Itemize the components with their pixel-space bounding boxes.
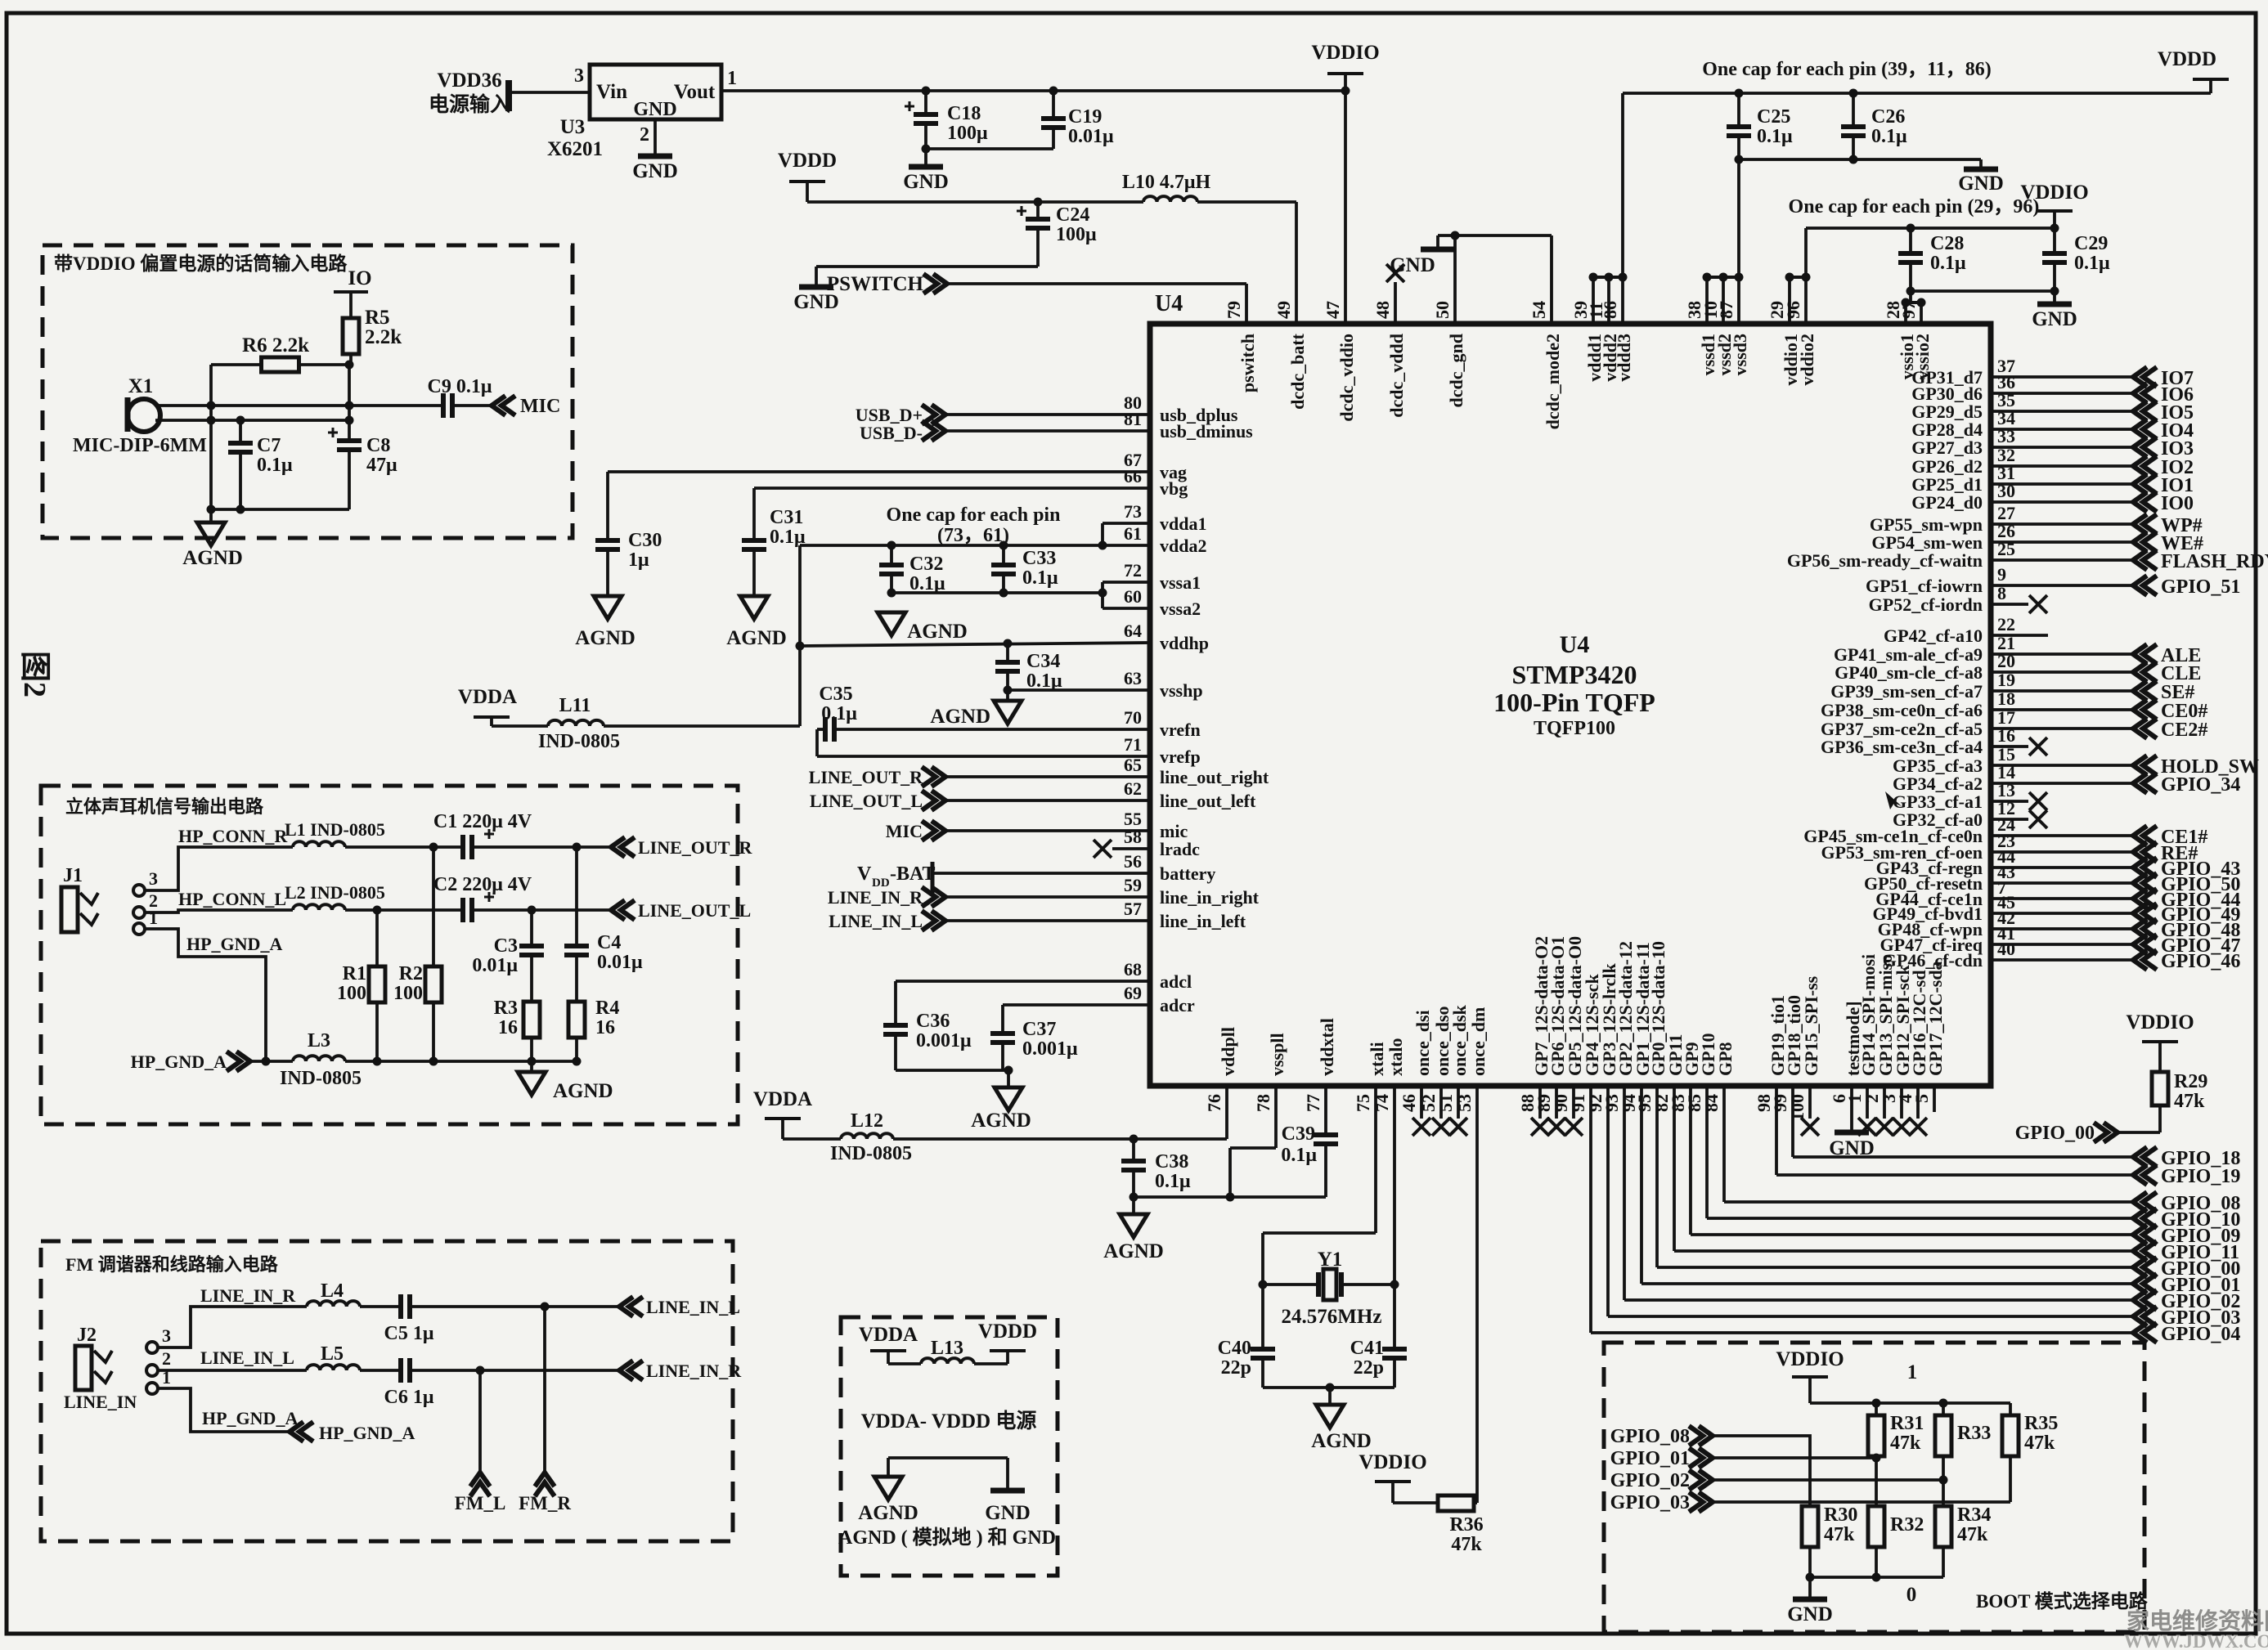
svg-text:VDDD: VDDD: [2158, 48, 2216, 70]
svg-text:GP38_sm-ce0n_cf-a6: GP38_sm-ce0n_cf-a6: [1821, 700, 1983, 720]
svg-text:HP_CONN_R: HP_CONN_R: [178, 826, 288, 846]
svg-text:BOOT 模式选择电路: BOOT 模式选择电路: [1976, 1590, 2149, 1612]
svg-text:vbg: vbg: [1160, 478, 1188, 499]
svg-text:GPIO_01: GPIO_01: [1610, 1448, 1690, 1469]
svg-text:GND: GND: [1390, 254, 1435, 276]
svg-text:R1: R1: [343, 963, 366, 984]
svg-text:C19: C19: [1068, 106, 1102, 128]
capacitor C36 0.001u: [883, 1023, 908, 1028]
svg-text:VDDIO: VDDIO: [2020, 182, 2088, 204]
svg-text:87: 87: [1716, 301, 1736, 319]
svg-text:0.001μ: 0.001μ: [1022, 1038, 1078, 1060]
junction at C24: [1034, 198, 1043, 207]
capacitor C30 1u: [595, 538, 620, 543]
svg-text:dcdc_gnd: dcdc_gnd: [1446, 334, 1466, 407]
svg-text:C36: C36: [916, 1011, 950, 1032]
wire VDDA to L12 to pin 76: [783, 1137, 841, 1141]
svg-text:once_dm: once_dm: [1468, 1007, 1489, 1076]
capacitor C19 0.01u: [1052, 91, 1055, 119]
svg-text:dcdc_batt: dcdc_batt: [1287, 333, 1308, 410]
ground GND in boot box: [1808, 1577, 1812, 1598]
svg-text:AGND: AGND: [858, 1502, 918, 1524]
svg-text:100: 100: [1787, 1094, 1808, 1121]
svg-text:AGND: AGND: [907, 621, 968, 643]
svg-text:VDDA: VDDA: [753, 1088, 812, 1110]
capacitor C5 1u series: [398, 1294, 403, 1319]
svg-text:62: 62: [1124, 778, 1142, 799]
svg-text:PSWITCH: PSWITCH: [827, 273, 924, 295]
svg-text:84: 84: [1701, 1094, 1722, 1112]
ground GND below U3: [638, 154, 672, 159]
J1 contact circles 3 2 1: [133, 885, 145, 896]
svg-text:100: 100: [337, 983, 366, 1004]
svg-text:GPIO_04: GPIO_04: [2161, 1324, 2240, 1345]
svg-text:U4: U4: [1560, 631, 1590, 658]
capacitor C25 0.1u: [1737, 93, 1740, 127]
svg-text:C7: C7: [257, 435, 281, 456]
svg-text:R32: R32: [1890, 1514, 1924, 1536]
wire L12 to pin 76 riser: [893, 1137, 1227, 1141]
microphone X1 MIC-DIP-6MM: [128, 399, 160, 432]
no-connect X on pin 48: [1386, 264, 1404, 282]
svg-text:GND: GND: [2032, 308, 2077, 330]
svg-text:VDDD: VDDD: [778, 150, 837, 172]
svg-text:LINE_OUT_L: LINE_OUT_L: [638, 900, 751, 921]
wire cap bottoms to GND rail: [1739, 158, 1981, 161]
svg-text:R2: R2: [399, 963, 423, 984]
svg-text:AGND ( 模拟地 ) 和 GND: AGND ( 模拟地 ) 和 GND: [838, 1527, 1056, 1549]
dashed box VDDA-VDDD power: [841, 1317, 1058, 1576]
svg-text:GND: GND: [1787, 1603, 1833, 1625]
inductor L5: [307, 1365, 360, 1370]
svg-text:adcr: adcr: [1160, 995, 1195, 1016]
svg-text:LINE_IN: LINE_IN: [64, 1392, 137, 1412]
net GPIO_10 wire from chip pin: [1705, 1088, 1709, 1218]
wire mic node down to bus: [209, 406, 213, 420]
svg-text:One cap for each pin: One cap for each pin: [887, 504, 1061, 526]
svg-text:100-Pin TQFP: 100-Pin TQFP: [1493, 688, 1655, 717]
svg-text:R36: R36: [1449, 1514, 1483, 1536]
svg-text:GPIO_19: GPIO_19: [2161, 1166, 2240, 1187]
svg-text:C39: C39: [1282, 1123, 1315, 1145]
resistor R36 47k: [1438, 1495, 1474, 1511]
svg-text:0.01μ: 0.01μ: [597, 952, 643, 973]
net GPIO_01 wire from chip pin: [1640, 1088, 1643, 1284]
net FLASH_RDY wire pin 25: [1991, 558, 2131, 562]
svg-text:GP56_sm-ready_cf-waitn: GP56_sm-ready_cf-waitn: [1787, 550, 1983, 571]
wire vddio rail boot box: [1810, 1401, 2010, 1405]
resistor R1 100: [375, 910, 379, 966]
svg-text:vddhp: vddhp: [1160, 633, 1209, 653]
wire vssd group up to gnd rail: [1737, 159, 1740, 277]
wire vddd1-3 pin group bar: [1593, 276, 1623, 279]
svg-text:C40: C40: [1218, 1338, 1251, 1359]
analog ground AGND on bus: [530, 1061, 533, 1072]
wire vssa rail pin 72 jog: [1103, 581, 1150, 584]
svg-text:C31: C31: [770, 507, 803, 528]
wire vbg pin 66 to C31: [754, 486, 1150, 490]
svg-text:47k: 47k: [1451, 1534, 1482, 1555]
wire adcr pin 69 to C37: [1003, 1003, 1150, 1007]
resistor R29 47k: [2152, 1072, 2168, 1105]
resistor R35 47k: [2009, 1403, 2012, 1415]
no-connect X pin 12: [1991, 818, 2028, 821]
svg-text:AGND: AGND: [182, 547, 243, 569]
wire vdda rail down to VDDA/L11: [798, 545, 802, 726]
svg-text:vddio2: vddio2: [1797, 334, 1817, 386]
capacitor C31 0.1u: [742, 538, 766, 543]
wire L10 to pin 49: [1197, 200, 1296, 204]
net LINE_OUT_R chevron right side: [621, 837, 635, 857]
svg-text:Y1: Y1: [1318, 1249, 1343, 1271]
wire vdda rail pin 61: [800, 544, 1150, 547]
wire L2 to C2: [345, 908, 463, 912]
svg-text:R6 2.2k: R6 2.2k: [242, 334, 309, 356]
svg-text:GP27_d3: GP27_d3: [1911, 437, 1983, 458]
svg-text:FM_R: FM_R: [519, 1493, 571, 1513]
svg-text:69: 69: [1124, 983, 1142, 1003]
power VDDIO in boot box: [1792, 1375, 1828, 1379]
no-connect X pins 1 2 3 4: [1866, 1088, 1869, 1119]
svg-text:C38: C38: [1155, 1151, 1188, 1172]
dashed box FM tuner line input circuit: [41, 1241, 733, 1541]
wire J2 pin2 to LINE_IN_L row: [158, 1369, 307, 1372]
net GPIO_02 wire from chip pin: [1623, 1088, 1626, 1300]
svg-text:-BAT: -BAT: [890, 863, 936, 885]
ground GND right of C26: [1964, 167, 1998, 173]
svg-text:60: 60: [1124, 586, 1142, 607]
svg-text:HP_GND_A: HP_GND_A: [202, 1408, 298, 1428]
power VDDA symbol at L12: [765, 1117, 801, 1120]
svg-text:R30: R30: [1824, 1504, 1857, 1526]
svg-text:C30: C30: [628, 530, 662, 551]
svg-text:L10 4.7μH: L10 4.7μH: [1122, 172, 1211, 193]
no-connect X on pin 58 lradc: [1094, 840, 1112, 858]
net FM_R drop and chevron: [543, 1307, 546, 1471]
dashed box BOOT mode select circuit: [1604, 1343, 2144, 1632]
wire resistor bottoms to gnd: [1808, 1547, 1812, 1577]
wire J1 pin3 to HP_CONN_R: [145, 847, 293, 890]
svg-text:C3: C3: [494, 935, 518, 957]
net LINE_IN_R chevron right: [629, 1361, 643, 1380]
wire L3 to R4 bottom: [345, 1060, 577, 1063]
crystal Y1 24.576MHz: [1259, 1280, 1268, 1289]
net IO6 wire pin 36: [1991, 392, 2131, 395]
svg-text:47k: 47k: [1824, 1524, 1855, 1545]
svg-text:GPIO_08: GPIO_08: [1610, 1426, 1690, 1447]
svg-text:once_dsi: once_dsi: [1412, 1010, 1433, 1076]
svg-text:GND: GND: [985, 1502, 1031, 1524]
svg-text:GP39_sm-sen_cf-a7: GP39_sm-sen_cf-a7: [1830, 681, 1983, 702]
svg-text:78: 78: [1253, 1094, 1273, 1112]
svg-text:J2: J2: [77, 1325, 97, 1346]
wire vsshp pin 63: [1008, 688, 1150, 692]
power VDDA symbol at L11: [474, 715, 510, 719]
svg-text:C6 1μ: C6 1μ: [384, 1387, 434, 1408]
svg-text:C2 220μ 4V: C2 220μ 4V: [433, 874, 532, 895]
svg-text:line_out_left: line_out_left: [1160, 791, 1256, 811]
svg-text:73: 73: [1124, 501, 1142, 522]
wire J1 pin1 HP_GND_A down: [145, 929, 266, 1061]
analog ground AGND below C31: [740, 596, 768, 619]
resistor R34 47k: [1935, 1506, 1951, 1547]
power VDDIO symbol right: [2037, 209, 2073, 213]
svg-text:GND: GND: [632, 160, 678, 182]
power VDDIO top symbol: [1327, 72, 1363, 75]
capacitor C41 22p: [1382, 1347, 1407, 1352]
capacitor C3 0.01u and resistor R3 16: [530, 910, 533, 946]
svg-text:vsspll: vsspll: [1267, 1033, 1287, 1076]
wire xtalo pin 74 down: [1393, 1088, 1396, 1349]
svg-text:L5: L5: [321, 1343, 344, 1365]
resistor R2 100: [432, 847, 435, 966]
resistor R6 2.2k horizontal: [211, 363, 262, 366]
junction at C18: [922, 87, 931, 96]
capacitor C26 0.1u: [1852, 93, 1855, 127]
svg-text:0.1μ: 0.1μ: [257, 455, 293, 476]
svg-text:line_out_right: line_out_right: [1160, 767, 1269, 787]
wire J1 pin2 to HP_CONN_L: [145, 910, 293, 912]
net GPIO_11 wire from chip pin: [1673, 1088, 1676, 1251]
svg-text:AGND: AGND: [1103, 1240, 1164, 1262]
wire cap bottoms agnd bus: [211, 508, 349, 511]
svg-text:0.1μ: 0.1μ: [1022, 567, 1058, 589]
svg-text:dcdc_vddd: dcdc_vddd: [1386, 334, 1407, 418]
inductor L10 4.7uH: [1143, 196, 1197, 202]
svg-text:0.1μ: 0.1μ: [1757, 126, 1793, 147]
svg-text:USB_D-: USB_D-: [860, 423, 923, 443]
svg-text:(73，61): (73，61): [937, 525, 1009, 546]
svg-text:FM_L: FM_L: [455, 1493, 506, 1513]
net FM_L drop and chevron: [478, 1370, 482, 1471]
svg-text:68: 68: [1124, 959, 1142, 980]
svg-text:16: 16: [595, 1017, 615, 1038]
wire agnd rail under C38: [1134, 1195, 1326, 1199]
svg-text:battery: battery: [1160, 863, 1215, 884]
svg-text:3: 3: [574, 65, 584, 87]
ground GND below pin 6 testmode: [1850, 1088, 1853, 1132]
small arrow mark near pin 12 row: [1885, 791, 1902, 809]
wire vdda1 pin 73 jog: [1103, 522, 1150, 525]
svg-text:MIC: MIC: [520, 396, 560, 417]
svg-text:VDDIO: VDDIO: [1311, 42, 1379, 64]
svg-text:66: 66: [1124, 466, 1142, 486]
svg-text:L12: L12: [851, 1110, 883, 1132]
svg-text:R33: R33: [1957, 1423, 1991, 1444]
svg-text:56: 56: [1124, 851, 1142, 872]
wire C18-C19 bottoms: [926, 147, 1053, 150]
svg-text:电源输入: 电源输入: [429, 92, 510, 116]
svg-text:47k: 47k: [1957, 1524, 1988, 1545]
net MIC chevron at mic box: [501, 396, 515, 415]
connector J1 jack: [61, 887, 78, 932]
svg-text:54: 54: [1529, 301, 1549, 319]
wire L4 to C5: [360, 1305, 401, 1308]
dashed box mic input circuit: [43, 245, 573, 538]
svg-text:vddd3: vddd3: [1614, 334, 1634, 382]
wire vag pin 67 to C30: [608, 470, 1150, 473]
svg-text:U3: U3: [560, 116, 586, 138]
svg-text:R35: R35: [2024, 1413, 2058, 1434]
svg-text:VDDD: VDDD: [978, 1320, 1037, 1343]
svg-text:71: 71: [1124, 734, 1142, 755]
svg-text:0.1μ: 0.1μ: [1930, 253, 1966, 274]
svg-text:57: 57: [1124, 899, 1142, 919]
capacitor C8 47u electrolytic: [348, 420, 351, 441]
svg-text:70: 70: [1124, 707, 1142, 728]
svg-text:vssd3: vssd3: [1730, 334, 1750, 375]
svg-text:0.1μ: 0.1μ: [1281, 1145, 1317, 1166]
analog ground AGND at vsshp: [1006, 690, 1009, 701]
svg-text:GPIO_02: GPIO_02: [1610, 1470, 1690, 1491]
svg-text:L11: L11: [559, 695, 591, 716]
net GPIO_47 wire pin 41: [1991, 943, 2131, 946]
wire crystal cap bottoms: [1263, 1386, 1394, 1389]
svg-text:AGND: AGND: [726, 627, 787, 649]
capacitor C29 0.1u: [2053, 228, 2056, 253]
svg-text:Vin: Vin: [596, 81, 627, 103]
wire L5 to C6: [360, 1369, 401, 1372]
svg-text:HP_CONN_L: HP_CONN_L: [178, 889, 286, 909]
svg-text:81: 81: [1124, 409, 1142, 429]
VDD36 input bar symbol: [505, 80, 512, 111]
no-connect X pins 46 52 51: [1420, 1088, 1423, 1119]
svg-text:2: 2: [162, 1348, 171, 1369]
wire GPIO_03 to R35 bottom: [1714, 1500, 2010, 1504]
net WP# wire pin 27: [1991, 522, 2131, 526]
svg-text:xtalo: xtalo: [1386, 1038, 1406, 1076]
svg-text:AGND: AGND: [930, 706, 990, 728]
svg-text:HP_GND_A: HP_GND_A: [186, 934, 282, 954]
svg-text:GP51_cf-iowrn: GP51_cf-iowrn: [1866, 576, 1983, 596]
wire vddd decoupling rail: [1623, 92, 2211, 95]
net LINE_IN_L chevron right: [629, 1297, 643, 1316]
wire vddhp pin 64: [800, 643, 1150, 646]
svg-text:0.001μ: 0.001μ: [916, 1030, 972, 1051]
svg-text:dcdc_mode2: dcdc_mode2: [1543, 334, 1563, 429]
svg-text:C34: C34: [1026, 651, 1060, 672]
wire VDDIO down to pin 47: [1344, 91, 1347, 324]
svg-text:TQFP100: TQFP100: [1534, 718, 1615, 739]
wire vddio1-2 pin group bar: [1790, 276, 1806, 279]
svg-text:47μ: 47μ: [366, 455, 397, 476]
svg-text:GPIO_00: GPIO_00: [2015, 1123, 2095, 1144]
wire VDD36 to U3 Vin: [512, 91, 590, 94]
net CE1# wire pin 24: [1991, 834, 2131, 837]
wire J2 pin1 HP_GND_A: [158, 1388, 288, 1432]
wire vssa2 pin 60 jog: [1103, 607, 1150, 610]
analog ground AGND in box: [874, 1477, 902, 1500]
svg-text:0.01μ: 0.01μ: [472, 955, 518, 976]
stub pin 5: [1933, 1088, 1936, 1112]
svg-text:L2 IND-0805: L2 IND-0805: [285, 882, 385, 903]
power VDDA in box: [870, 1349, 906, 1352]
ground GND below C24 line: [799, 285, 833, 290]
svg-text:C33: C33: [1022, 548, 1056, 569]
svg-text:STMP3420: STMP3420: [1512, 660, 1637, 689]
capacitor C2 220u 4V series: [460, 898, 465, 922]
connector J2 jack: [75, 1346, 92, 1390]
svg-text:L3: L3: [308, 1030, 330, 1051]
net WE# wire pin 26: [1991, 540, 2131, 544]
svg-text:1: 1: [727, 68, 737, 89]
wire L1 to C1: [345, 845, 463, 849]
ground GND below C29: [2053, 291, 2056, 303]
jack prongs J1: [80, 893, 98, 904]
svg-text:C32: C32: [909, 554, 943, 575]
svg-text:vddxtal: vddxtal: [1317, 1018, 1337, 1076]
svg-text:C25: C25: [1757, 106, 1790, 128]
svg-text:adcl: adcl: [1160, 971, 1192, 992]
svg-text:vrefn: vrefn: [1160, 720, 1201, 740]
svg-text:GP36_sm-ce3n_cf-a4: GP36_sm-ce3n_cf-a4: [1821, 737, 1983, 757]
net GPIO_44 wire pin 7: [1991, 897, 2131, 900]
svg-text:GPIO_51: GPIO_51: [2161, 576, 2240, 598]
svg-text:LINE_IN_L: LINE_IN_L: [646, 1297, 740, 1317]
svg-text:L1 IND-0805: L1 IND-0805: [285, 819, 385, 840]
svg-text:48: 48: [1372, 301, 1393, 319]
net GPIO_48 wire pin 42: [1991, 927, 2131, 930]
inductor L13: [888, 1362, 921, 1365]
net IO4 wire pin 34: [1991, 428, 2131, 431]
wire vsspll pin 78 jog to agnd rail: [1274, 1088, 1278, 1148]
svg-text:0.1μ: 0.1μ: [1871, 126, 1907, 147]
svg-text:AGND: AGND: [575, 627, 635, 649]
wire U3 GND pin down: [653, 119, 657, 155]
svg-text:61: 61: [1124, 523, 1142, 544]
svg-text:86: 86: [1600, 301, 1620, 319]
svg-text:VDDIO: VDDIO: [1359, 1451, 1426, 1473]
capacitor C18 100u electrolytic: [924, 91, 927, 114]
capacitor C32 0.1u: [890, 545, 893, 565]
ground GND below C18: [924, 149, 927, 166]
power VDDD in box: [974, 1362, 1008, 1365]
capacitor C1 220u 4V series: [460, 835, 465, 859]
svg-text:72: 72: [1124, 560, 1142, 581]
svg-text:LINE_IN_R: LINE_IN_R: [200, 1285, 296, 1306]
svg-text:46: 46: [1399, 1094, 1419, 1112]
svg-text:One cap for each pin (39，11，86: One cap for each pin (39，11，86): [1702, 59, 1992, 80]
svg-text:J1: J1: [63, 865, 83, 886]
svg-text:2: 2: [640, 124, 649, 146]
svg-text:C24: C24: [1056, 204, 1089, 226]
svg-text:AGND: AGND: [1311, 1430, 1372, 1452]
svg-text:C28: C28: [1930, 233, 1964, 254]
svg-text:LINE_IN_R: LINE_IN_R: [828, 887, 923, 908]
svg-text:R34: R34: [1957, 1504, 1991, 1526]
svg-text:0.1μ: 0.1μ: [1155, 1171, 1191, 1192]
capacitor C39 0.1u on vddxtal pin 77: [1324, 1088, 1327, 1135]
net GPIO_34 wire pin 14: [1991, 782, 2131, 785]
svg-text:3: 3: [149, 868, 158, 889]
svg-text:50: 50: [1432, 301, 1453, 319]
svg-text:VDDIO: VDDIO: [1776, 1348, 1844, 1370]
svg-text:96: 96: [1783, 301, 1803, 319]
svg-text:0: 0: [1906, 1584, 1917, 1606]
svg-text:0.01μ: 0.01μ: [1068, 126, 1114, 147]
wire R36 to once_dm pin 53: [1474, 1501, 1477, 1504]
capacitor C9 0.1u series: [441, 393, 446, 418]
svg-text:R31: R31: [1890, 1413, 1924, 1434]
inductor L4: [307, 1301, 360, 1307]
J2 contact circles 3 2 1: [146, 1342, 158, 1353]
wire C36-C37 bottoms: [896, 1069, 1008, 1072]
junction at VDDIO drop: [1341, 87, 1350, 96]
wire vssio1-2 pin group bar: [1906, 301, 1921, 304]
svg-text:47k: 47k: [1890, 1433, 1921, 1454]
svg-text:dcdc_vddio: dcdc_vddio: [1336, 334, 1357, 422]
wire vddio decoupling rail: [1806, 226, 2055, 230]
